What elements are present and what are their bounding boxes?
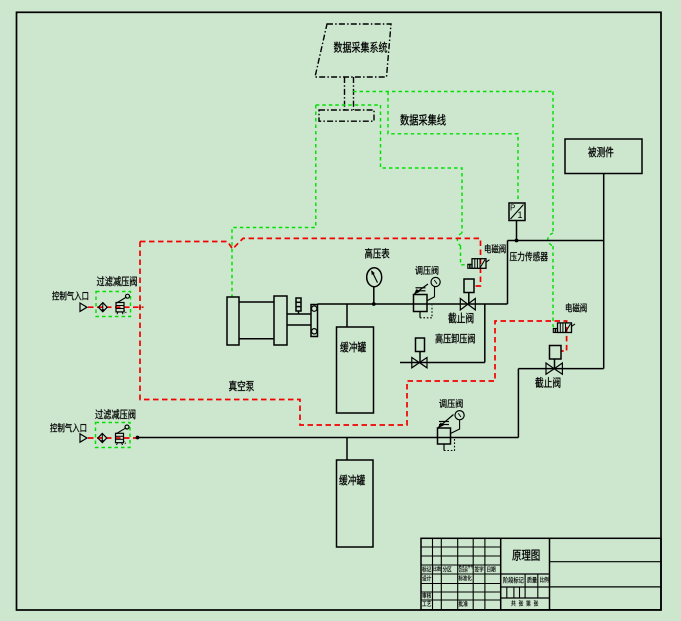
- svg-text:P: P: [510, 204, 515, 213]
- svg-text:1: 1: [518, 210, 523, 220]
